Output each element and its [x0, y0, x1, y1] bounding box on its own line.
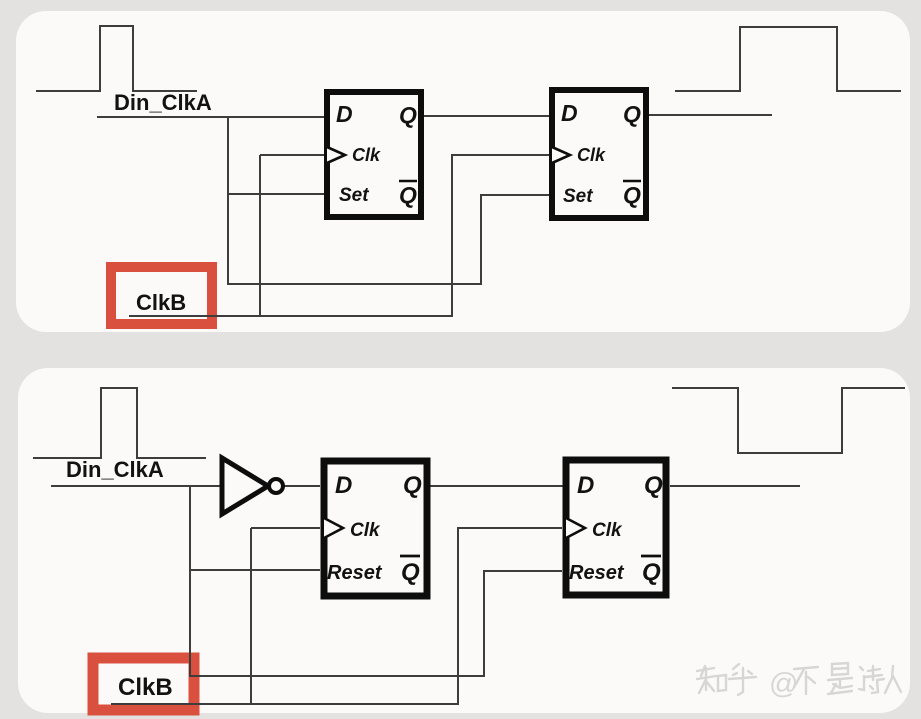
- svg-text:Q: Q: [623, 101, 641, 127]
- svg-text:Q: Q: [401, 559, 420, 586]
- svg-text:ClkB: ClkB: [118, 674, 173, 701]
- svg-text:Q: Q: [399, 182, 417, 208]
- svg-text:Q: Q: [642, 559, 661, 586]
- svg-text:Q: Q: [623, 182, 641, 208]
- svg-text:D: D: [561, 100, 578, 126]
- svg-text:@: @: [769, 668, 798, 700]
- svg-text:Q: Q: [399, 102, 417, 128]
- svg-text:Clk: Clk: [352, 145, 381, 165]
- svg-text:Clk: Clk: [577, 145, 606, 165]
- svg-text:Set: Set: [339, 185, 369, 206]
- svg-text:Set: Set: [563, 186, 593, 207]
- svg-text:Q: Q: [644, 472, 663, 499]
- svg-text:Clk: Clk: [350, 520, 381, 541]
- svg-text:Din_ClkA: Din_ClkA: [114, 90, 212, 115]
- svg-text:Reset: Reset: [327, 562, 383, 584]
- svg-text:D: D: [335, 472, 352, 499]
- svg-text:ClkB: ClkB: [136, 290, 186, 315]
- svg-text:Din_ClkA: Din_ClkA: [66, 457, 164, 482]
- svg-text:Q: Q: [403, 472, 422, 499]
- svg-text:D: D: [336, 101, 353, 127]
- svg-text:D: D: [577, 472, 594, 499]
- svg-text:Reset: Reset: [569, 562, 625, 584]
- svg-text:Clk: Clk: [592, 520, 623, 541]
